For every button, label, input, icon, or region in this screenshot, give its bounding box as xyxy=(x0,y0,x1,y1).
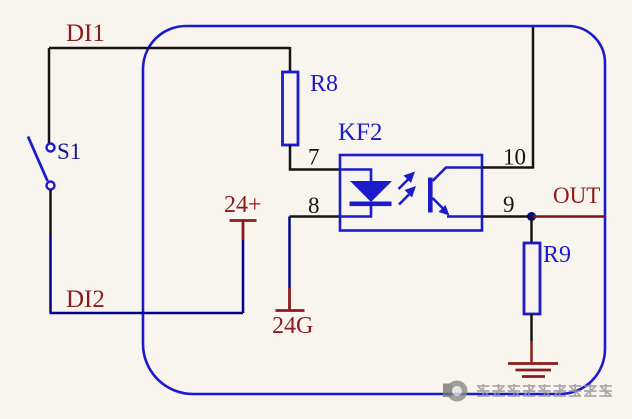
wire: DI2 horizontal run to 24+ xyxy=(50,312,244,315)
power terminal 24+ xyxy=(230,221,257,241)
phototransistor emitter with arrow xyxy=(433,198,445,210)
watermark text (stylised CJK strokes) xyxy=(477,384,612,397)
svg-text:R8: R8 xyxy=(310,71,338,97)
phototransistor base bar xyxy=(428,178,433,213)
svg-text:R9: R9 xyxy=(543,242,571,268)
svg-text:DI2: DI2 xyxy=(66,286,105,313)
LED triangle xyxy=(350,181,392,202)
wire: R8 top lead xyxy=(289,47,292,72)
svg-text:24+: 24+ xyxy=(224,192,262,218)
optocoupler U KF2 body xyxy=(340,155,482,231)
wire: S1 to DI2 corner (blue part) xyxy=(49,234,52,313)
svg-text:S1: S1 xyxy=(57,139,81,164)
light arrow upper xyxy=(399,180,409,190)
wire: node to R9 top xyxy=(530,217,533,244)
svg-text:24G: 24G xyxy=(272,313,313,339)
light arrow lower xyxy=(399,195,409,205)
LED cathode lead to pin 8 xyxy=(340,206,371,217)
wire: pin 10 to top border xyxy=(482,27,533,168)
svg-text:7: 7 xyxy=(308,145,320,170)
wire: R9 to ground (red part) xyxy=(530,341,533,362)
junction node at OUT xyxy=(527,212,536,221)
wire: DI1 horizontal to R8 xyxy=(49,47,290,50)
phototransistor collector xyxy=(433,168,483,182)
svg-text:10: 10 xyxy=(503,145,526,170)
wire: pin 9 to node xyxy=(482,215,532,218)
svg-text:8: 8 xyxy=(308,193,320,218)
switch S1 lever xyxy=(28,137,48,182)
wire: R8 bottom lead to pin 7 xyxy=(290,145,340,170)
wire: S1 bottom lead (black part) xyxy=(49,190,52,234)
wire: pin 8 horizontal xyxy=(290,215,341,218)
watermark logo xyxy=(443,381,468,402)
svg-text:9: 9 xyxy=(503,192,515,217)
power terminal 24G xyxy=(276,288,305,311)
ground symbol xyxy=(508,364,558,377)
resistor R8 xyxy=(283,72,299,145)
wire: riser to 24+ terminal xyxy=(242,240,245,313)
wire: R9 bottom lead (black part) xyxy=(530,314,533,341)
switch S1 top terminal xyxy=(47,144,55,152)
wire: OUT net to right border xyxy=(532,215,606,218)
LED anode lead inside KF2 xyxy=(340,170,371,182)
resistor R9 xyxy=(524,243,540,314)
switch S1 bottom terminal xyxy=(47,182,55,190)
wire: pin 8 riser down (blue part) xyxy=(288,217,291,289)
LED cathode bar xyxy=(350,202,392,207)
svg-text:OUT: OUT xyxy=(553,183,600,208)
wire: DI1 vertical down to S1 xyxy=(48,48,51,144)
wire: outer blue loop (rounded rectangle border net) xyxy=(143,26,605,394)
svg-text:DI1: DI1 xyxy=(66,20,105,47)
svg-text:KF2: KF2 xyxy=(338,119,382,146)
